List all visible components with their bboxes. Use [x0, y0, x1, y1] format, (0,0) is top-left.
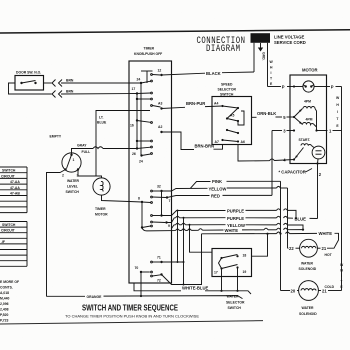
wire YELLOW 2 [172, 225, 176, 229]
svg-text:SWITCH: SWITCH [66, 190, 80, 194]
svg-text:COLD: COLD [325, 285, 335, 289]
wire BRN-BRN (timer A2 to speed sel A7) [162, 132, 195, 150]
motor protector circle [303, 81, 314, 92]
wire WHITE-BLUE [134, 283, 181, 291]
wire white right riser [341, 87, 343, 291]
svg-text:I: I [271, 71, 272, 75]
svg-text:SOLENOID: SOLENOID [299, 267, 317, 271]
svg-text:MOTOR: MOTOR [95, 212, 108, 216]
wire PURPLE 1 [162, 211, 226, 216]
motor terminal 3 [293, 129, 295, 131]
svg-text:BRN: BRN [66, 79, 74, 83]
wire water selector drops [221, 269, 223, 291]
left reference table upper [0, 167, 27, 213]
svg-text:BLACK: BLACK [206, 71, 221, 76]
svg-text:24: 24 [139, 159, 143, 163]
svg-text:GRAY: GRAY [77, 144, 87, 148]
svg-text:71: 71 [157, 256, 161, 260]
svg-text:SOLENOID: SOLENOID [299, 312, 317, 316]
wire YELLOW (to hot riser) [162, 188, 208, 191]
svg-text:20: 20 [291, 289, 296, 294]
svg-text:72: 72 [157, 278, 161, 282]
svg-text:TO CHANGE TIMER POSITION PUSH: TO CHANGE TIMER POSITION PUSH KNOB IN AN… [65, 314, 199, 319]
wire full contact to timer motor [78, 170, 102, 179]
node P right / white wire to right riser [327, 86, 331, 88]
svg-text:P: P [331, 85, 334, 90]
svg-text:WATER: WATER [302, 306, 315, 310]
wire speed sel A6 to motor 4 [238, 145, 270, 162]
node 9 [165, 221, 167, 223]
svg-text:MOTOR: MOTOR [302, 68, 318, 73]
svg-text:EMPTY: EMPTY [50, 135, 62, 139]
node 7 [166, 196, 168, 198]
svg-text:I: I [341, 274, 342, 278]
svg-text:E MORE OF: E MORE OF [0, 280, 19, 284]
svg-text:M,440: M,440 [0, 297, 10, 301]
speed selector contacts [221, 105, 223, 107]
wire door switch right [44, 82, 52, 84]
timer contact arms [137, 75, 166, 277]
svg-text:WATER: WATER [227, 295, 240, 299]
water selector switch box [212, 249, 252, 277]
svg-text:A5: A5 [230, 113, 234, 117]
svg-text:16: 16 [130, 124, 134, 128]
wire timer motor to timer 8 [102, 195, 143, 202]
svg-text:SWITCH: SWITCH [228, 306, 242, 310]
svg-text:PURPLE: PURPLE [227, 216, 244, 221]
node junction to terminal 1 [315, 129, 317, 131]
svg-text:WHITE: WHITE [319, 231, 333, 236]
svg-text:SWITCH AND TIMER SEQUENCE: SWITCH AND TIMER SEQUENCE [82, 303, 178, 312]
svg-text:P,723: P,723 [0, 319, 9, 323]
svg-text:LEVEL: LEVEL [67, 184, 78, 188]
timer mid contacts [136, 140, 138, 142]
wire BRN to timer 17 [61, 93, 137, 96]
svg-text:BLUE: BLUE [97, 121, 107, 125]
wire black riser from plug [253, 43, 255, 72]
svg-text:TIMER: TIMER [144, 46, 155, 50]
svg-text:P: P [282, 85, 285, 90]
svg-text:24: 24 [137, 77, 141, 81]
svg-text:RED: RED [211, 193, 220, 198]
wire empty contact to orange [47, 170, 66, 297]
line voltage service cord plug [251, 33, 271, 43]
svg-text:SWITCH: SWITCH [2, 223, 16, 227]
frame bottom border [0, 321, 263, 324]
svg-text:WATER: WATER [301, 262, 314, 266]
svg-text:21: 21 [322, 246, 327, 251]
svg-text:12: 12 [158, 68, 162, 72]
svg-text:2: 2 [62, 173, 64, 177]
svg-text:DIAGRAM: DIAGRAM [206, 43, 240, 54]
svg-text:4PM: 4PM [306, 118, 313, 122]
svg-text:A6: A6 [241, 140, 245, 144]
connector chevrons BRN upper [52, 80, 56, 87]
wire 71 to riser [162, 261, 184, 263]
svg-text:YELLOW: YELLOW [209, 186, 227, 191]
left reference table lower [0, 222, 27, 267]
wire ORANGE (empty to timer 70) [47, 295, 86, 297]
wire white riser from plug [267, 43, 269, 87]
svg-text:19: 19 [243, 270, 247, 274]
svg-text:HOT: HOT [325, 253, 333, 257]
svg-text:A7: A7 [215, 140, 219, 144]
svg-text:CONTS.: CONTS. [0, 286, 13, 290]
svg-text:WATER: WATER [67, 179, 80, 183]
svg-text:KNOB-PUSH OFF: KNOB-PUSH OFF [134, 52, 162, 56]
wire BRN to timer 24 [61, 82, 141, 84]
svg-text:2,408: 2,408 [0, 308, 9, 312]
node 72 [160, 273, 162, 275]
svg-text:17: 17 [214, 270, 218, 274]
svg-text:22: 22 [289, 246, 294, 251]
wire WHITE lower (72 riser to hot 21) [162, 234, 202, 285]
svg-text:ORN-BLK: ORN-BLK [257, 111, 276, 116]
svg-text:A2: A2 [158, 125, 162, 129]
svg-text:4PM: 4PM [304, 100, 311, 104]
timer cam [141, 70, 153, 72]
wire BLACK (timer 12 to plug) [162, 73, 206, 75]
ground symbol GRD. [260, 43, 262, 48]
svg-text:18: 18 [243, 253, 247, 257]
wire riser red to motor 3 [271, 131, 273, 196]
wire BRN-PUR (timer A3 to A4) [162, 107, 186, 108]
svg-text:SERVICE CORD: SERVICE CORD [274, 40, 306, 45]
svg-text:7: 7 [169, 199, 171, 203]
svg-text:47-AB: 47-AB [10, 192, 20, 196]
wire PURPLE 2 / BLUE (motor 2) [167, 218, 176, 223]
svg-text:.IF: .IF [1, 240, 5, 244]
svg-text:47-AA: 47-AA [10, 180, 20, 184]
wire yellow riser to hot 22 [287, 188, 289, 248]
wire pink riser to cold solenoid [280, 181, 282, 290]
svg-text:START.: START. [299, 138, 311, 142]
capacitor circle [312, 146, 325, 159]
svg-text:BRN-BRN: BRN-BRN [195, 144, 215, 149]
svg-text:26: 26 [132, 152, 136, 156]
svg-text:SELECTOR: SELECTOR [226, 300, 245, 304]
svg-text:BRN-PUR: BRN-PUR [186, 101, 205, 106]
node capacitor to terminal 2 [316, 162, 318, 164]
svg-text:A,018: A,018 [0, 291, 9, 295]
timer motor TM [93, 178, 110, 195]
wire RED (to motor 3 riser) [167, 196, 210, 198]
svg-text:ORANGE: ORANGE [87, 295, 103, 299]
svg-text:WHITE: WHITE [225, 228, 239, 233]
svg-text:PINK: PINK [212, 179, 222, 184]
node 20 [281, 290, 291, 292]
svg-text:21: 21 [322, 289, 327, 294]
svg-text:SPEED: SPEED [221, 83, 233, 87]
svg-text:CIRCUIT: CIRCUIT [1, 229, 16, 233]
motor terminal 5 [293, 116, 295, 118]
svg-text:WHITE-BLUE: WHITE-BLUE [182, 285, 208, 290]
wire PINK [191, 182, 211, 189]
svg-text:8: 8 [138, 196, 140, 200]
svg-text:17: 17 [132, 87, 136, 91]
svg-text:2,096: 2,096 [0, 302, 9, 306]
timer internal riser a [140, 83, 142, 156]
svg-text:TIMER: TIMER [95, 207, 106, 211]
svg-text:SWITCH: SWITCH [2, 169, 16, 173]
wire motor 2 riser to blue [317, 164, 319, 219]
svg-text:LT.: LT. [99, 116, 104, 120]
svg-text:GRD.: GRD. [262, 52, 266, 61]
svg-text:A3: A3 [158, 102, 162, 106]
svg-text:A4: A4 [214, 101, 218, 105]
wire white to motor P [268, 86, 282, 88]
wire water sel 18 riser [252, 234, 268, 257]
svg-text:32: 32 [157, 185, 161, 189]
wire door switch left loop [9, 83, 52, 94]
svg-text:70: 70 [135, 266, 139, 270]
svg-text:1: 1 [73, 158, 75, 162]
connector chevrons BRN lower [52, 91, 56, 98]
svg-text:DOOR SW. N.O.: DOOR SW. N.O. [16, 70, 41, 74]
wire ORN-BLK (speed sel to motor 5) [252, 116, 257, 118]
svg-text:* CAPACITOR: * CAPACITOR [279, 170, 306, 175]
wire WHITE upper [142, 228, 176, 231]
svg-text:47-AA: 47-AA [10, 186, 20, 190]
svg-text:9: 9 [168, 224, 170, 228]
svg-text:BRN: BRN [66, 90, 74, 94]
svg-text:FULL: FULL [82, 150, 91, 154]
hot water solenoid [300, 239, 318, 257]
frame top border [0, 30, 350, 33]
svg-text:PURPLE: PURPLE [227, 208, 244, 213]
timer internal riser b [136, 94, 138, 149]
motor speed winding blade [294, 109, 303, 118]
svg-text:P,520: P,520 [0, 313, 9, 317]
svg-text:I: I [337, 110, 338, 114]
motor terminal 4 [293, 158, 295, 160]
svg-text:CIRCUIT: CIRCUIT [1, 174, 16, 178]
svg-text:SELECTOR: SELECTOR [218, 88, 237, 92]
cold water solenoid [299, 281, 319, 301]
wire bundle risers to lower contacts [178, 211, 213, 285]
